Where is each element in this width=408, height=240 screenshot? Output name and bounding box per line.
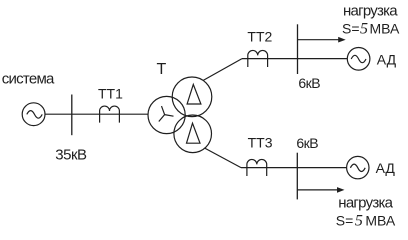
svg-text:АД: АД: [377, 51, 397, 67]
svg-text:АД: АД: [376, 160, 396, 176]
svg-text:35кВ: 35кВ: [55, 147, 87, 164]
svg-text:S=5МВА: S=5МВА: [342, 20, 400, 37]
svg-text:6кВ: 6кВ: [298, 75, 320, 91]
svg-text:система: система: [2, 70, 55, 87]
svg-text:ТТ3: ТТ3: [248, 135, 273, 151]
svg-text:6кВ: 6кВ: [296, 135, 318, 151]
svg-text:ТТ1: ТТ1: [98, 85, 123, 101]
svg-text:нагрузка: нагрузка: [343, 2, 398, 19]
svg-text:Т: Т: [157, 61, 167, 78]
svg-text:ТТ2: ТТ2: [247, 29, 272, 45]
svg-text:нагрузка: нагрузка: [338, 194, 393, 211]
svg-text:S=5МВА: S=5МВА: [336, 212, 396, 229]
